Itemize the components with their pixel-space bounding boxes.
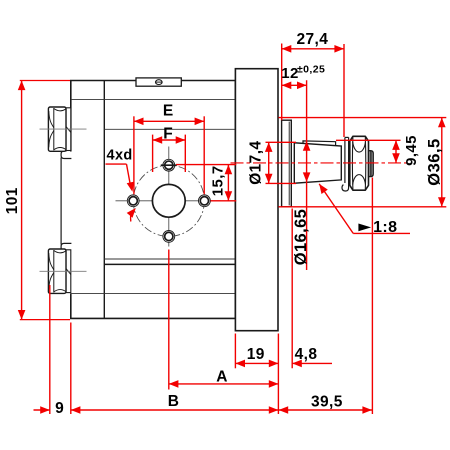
hex plug bottom port <box>48 249 70 293</box>
extension line 15,7 bottom <box>211 200 237 202</box>
extension line 101 bottom <box>20 319 70 321</box>
svg-text:19: 19 <box>247 346 265 363</box>
extension line 15,7 top <box>176 164 236 166</box>
extension line 9 <box>49 285 51 414</box>
pump body side view outline <box>235 69 278 331</box>
housing section line lower 2 <box>71 293 236 295</box>
shaft end stub <box>369 151 374 177</box>
tab hole <box>155 80 163 85</box>
extension line 39,5 right <box>371 178 373 415</box>
dimension 36,5 <box>438 118 446 207</box>
svg-text:E: E <box>163 103 174 120</box>
housing flange edge lower <box>104 263 235 265</box>
shaft flange disc <box>282 120 292 207</box>
label 27,4 <box>297 31 329 48</box>
dimension 19 <box>235 360 278 368</box>
label 1:8 <box>373 219 397 236</box>
centerline top plug <box>40 128 87 130</box>
label tolerance <box>297 64 325 76</box>
svg-text:4,8: 4,8 <box>295 346 318 363</box>
extension lines F <box>153 135 186 172</box>
svg-text:Ø36,5: Ø36,5 <box>426 138 444 185</box>
svg-text:15,7: 15,7 <box>209 165 226 196</box>
flange disc face line <box>288 122 290 206</box>
label 101 <box>4 187 21 214</box>
tapered shaft <box>294 143 341 183</box>
label 39,5 <box>311 393 343 410</box>
dimension E <box>134 118 204 126</box>
svg-text:Ø16,65: Ø16,65 <box>292 209 310 266</box>
front cover divider line <box>103 81 105 319</box>
bolt hole bottom <box>163 231 175 243</box>
svg-text:9,45: 9,45 <box>403 135 420 166</box>
dimension A <box>169 380 279 388</box>
dimension 27,4 <box>282 45 344 53</box>
label 4,8 <box>295 346 318 363</box>
shaft key <box>303 141 336 146</box>
dimension 12 <box>282 82 307 90</box>
extension line B left <box>70 323 72 415</box>
label E <box>163 103 174 120</box>
extension line 9,45 <box>336 139 401 141</box>
extension line 27,4 right <box>343 44 345 137</box>
dimension 17,4 <box>265 142 273 183</box>
taper symbol <box>358 224 371 232</box>
dimension B <box>71 406 279 414</box>
housing section line upper 1 <box>71 99 236 101</box>
svg-text:A: A <box>216 369 228 386</box>
shaft bore circle <box>152 184 185 217</box>
label 19 <box>247 346 265 363</box>
bolt hole top <box>161 159 177 171</box>
label F <box>163 126 173 143</box>
nut chamfer arc bottom <box>353 175 366 185</box>
bolt circle <box>133 165 204 236</box>
leader 1:8 <box>319 184 410 234</box>
dimension arrows 16,65 <box>303 141 311 182</box>
label A <box>216 369 228 386</box>
svg-text:27,4: 27,4 <box>297 31 329 48</box>
extension line A from gear center <box>168 250 170 390</box>
shaft end stub inner line <box>370 151 371 177</box>
dimension 15,7 <box>225 165 233 201</box>
leader arrow curved <box>127 208 136 222</box>
svg-text:1:8: 1:8 <box>373 219 397 236</box>
label 12 <box>281 65 299 82</box>
nut facet line left <box>351 137 354 189</box>
castle nut <box>350 136 369 190</box>
lifting tab <box>136 78 181 86</box>
bolt hole right <box>199 195 211 207</box>
svg-text:±0,25: ±0,25 <box>297 64 325 76</box>
svg-text:9: 9 <box>55 400 64 417</box>
extension line 36,5 bottom <box>279 206 447 208</box>
svg-text:Ø17,4: Ø17,4 <box>248 141 265 185</box>
label 9 <box>55 400 64 417</box>
extension line 19-B-A right <box>277 334 279 415</box>
extension line 4,8 <box>291 209 293 369</box>
svg-text:F: F <box>163 126 173 143</box>
port boss lower <box>61 243 71 250</box>
dimension 9,45 <box>392 140 400 163</box>
horizontal centerline front view <box>116 200 221 202</box>
label O17,4 <box>248 141 265 185</box>
extension line 101 top <box>20 80 70 82</box>
bolt hole left <box>127 195 139 207</box>
body left bulge edge <box>60 158 62 245</box>
label O36,5 <box>426 138 444 185</box>
extension line 27,4 left <box>281 44 283 121</box>
side view centerline <box>231 162 411 164</box>
extension line 36,5 top <box>279 117 447 119</box>
dimension 9 <box>34 406 50 414</box>
dimension 101 <box>18 81 26 320</box>
dimension 39,5 <box>279 406 372 414</box>
port boss upper <box>61 151 71 159</box>
label 15,7 <box>209 165 226 196</box>
centerline bottom plug <box>40 270 87 272</box>
extension lines E <box>134 116 204 194</box>
hex plug top port <box>48 107 70 151</box>
housing section line upper 3 <box>104 128 235 130</box>
label B <box>168 393 180 410</box>
svg-text:B: B <box>168 393 180 410</box>
nut facet line right <box>364 137 367 189</box>
extension line 12 right / dim line 16,65 <box>306 80 308 270</box>
svg-text:39,5: 39,5 <box>311 393 343 410</box>
leader 4xd <box>106 164 135 192</box>
nut chamfer arc top <box>353 142 366 152</box>
label O16,65 <box>292 209 310 266</box>
tab washer <box>342 137 349 191</box>
label 9,45 <box>403 135 420 166</box>
dimension F <box>153 136 186 144</box>
housing section line lower 1 <box>104 258 235 260</box>
dimension 4,8 <box>292 360 332 368</box>
vertical centerline front view <box>168 147 170 247</box>
svg-text:101: 101 <box>4 187 21 214</box>
extension line 17,4 top <box>266 141 297 143</box>
label 4xd <box>107 147 133 163</box>
pump body front view outline <box>71 81 236 319</box>
extension line 17,4 bottom <box>266 182 297 184</box>
svg-text:4xd: 4xd <box>107 147 133 163</box>
extension line 19 left <box>234 334 236 369</box>
